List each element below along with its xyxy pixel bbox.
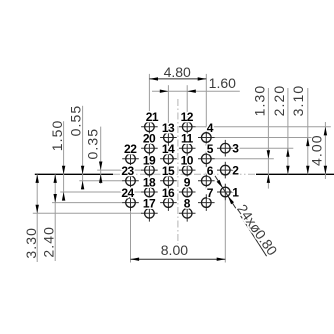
svg-text:3: 3 [232,142,239,156]
dimension 3.30 bottom arrow (tip at R8) [36,205,39,214]
wire extension line row R4 leftward to 0.35 dim [97,169,142,171]
pad 4 crosshair [198,137,215,139]
dimension 1.30 line [267,88,269,189]
pad 10 crosshair [179,169,196,171]
dimension 1.30 top arrow (tip at R3) [267,150,270,159]
dimension 0.55 line [82,106,84,190]
pad 22 crosshair [122,158,139,160]
pad 18 plated hole [145,187,155,197]
wire extension line row R2 rightward to 2.20 dim [233,147,293,149]
node vertical centerline (dash-dot) [177,99,179,244]
svg-text:2.40: 2.40 [40,226,56,258]
svg-text:18: 18 [143,175,156,189]
dimension 3.30 top arrow (tip at centerline) [36,174,39,183]
dimension 8.00 right arrow [217,258,226,261]
wire horizontal centerline solid right extension [256,173,334,175]
wire extension line row R1 rightward to 3.10 dim [214,137,311,139]
pad 13 crosshair [160,137,177,139]
svg-text:16: 16 [162,186,175,200]
pad 24 plated hole [126,198,136,208]
dimension 8.00 left arrow [131,258,140,261]
pad 11 plated hole [182,143,192,153]
pad 6 crosshair [198,180,215,182]
pad 12 crosshair [179,126,196,128]
pad 21 plated hole [145,122,155,132]
node horizontal centerline (dash-dot) [113,173,256,175]
dimension 3.10 top arrow (tip at R1) [306,138,309,147]
leader lower arrow (tip at pad 1 circle lower-right edge, pointing up-left) [228,196,234,204]
dimension 2.40 bottom arrow (tip at R7) [54,194,57,203]
pad 13 plated hole [164,133,174,143]
svg-text:8: 8 [184,197,191,211]
svg-text:21: 21 [146,110,159,124]
wire extension line row R7 leftward to 2.40 dim [52,202,123,204]
svg-text:3.10: 3.10 [290,85,306,117]
pad 8 crosshair [179,212,196,214]
pad 16 crosshair [160,202,177,204]
dimension 0.35 top arrow (tip at R4) [99,162,102,171]
dimension 4.00 top arrow (tip at R0) [324,127,327,136]
svg-text:7: 7 [207,186,214,200]
pad 19 plated hole [145,165,155,175]
pad 17 crosshair [141,212,158,214]
svg-text:2.20: 2.20 [271,85,287,117]
svg-text:4.80: 4.80 [164,64,191,80]
svg-text:19: 19 [143,154,156,168]
dimension 0.55 bottom arrow (tip at R5) [81,181,84,190]
svg-text:3.30: 3.30 [23,227,39,259]
svg-text:0.35: 0.35 [84,128,100,160]
dimension 1.50 bottom arrow (tip at R6) [62,192,65,201]
wire extension line column c5 up to 4.80 dim [205,74,207,130]
dimension 3.10 line [307,88,309,174]
pad 17 plated hole [145,209,155,219]
dimension 1.60 left arrow (outside, tip at c3) [160,90,169,93]
pad 9 crosshair [179,191,196,193]
wire extension line column c3 up to 1.60 dim [167,85,169,130]
pad 18 crosshair [141,191,158,193]
pad 8 plated hole [182,209,192,219]
svg-text:1.30: 1.30 [252,85,268,117]
wire extension line column c6 down to 8.00 dim [224,200,226,262]
dimension 3.30 line [36,174,38,262]
svg-text:1.50: 1.50 [49,120,65,152]
wire extension line row R3 rightward to 1.30 dim [214,158,273,160]
dimension 1.50 top arrow (tip at centerline) [62,166,65,175]
dimension 2.20 bottom arrow (tip at centerline) [286,166,289,175]
dimension 2.40 line [54,174,56,261]
pad 4 plated hole [202,133,212,143]
dimension 1.50 line [63,121,65,200]
dimension 2.40 top arrow (tip at centerline) [54,174,57,183]
pad 16 plated hole [164,198,174,208]
dimension 4.00 line [324,122,326,179]
svg-text:20: 20 [143,132,156,146]
svg-text:12: 12 [181,110,194,124]
dimension 4.80 line (c2 to c5) [149,78,206,80]
pad 5 crosshair [198,158,215,160]
wire extension line row R6 leftward to 1.50 dim [60,191,142,193]
pad 23 plated hole [126,176,136,186]
svg-text:5: 5 [207,142,214,156]
svg-text:4: 4 [207,121,214,135]
wire extension line column c4 up to 1.60 dim [186,85,188,119]
svg-text:17: 17 [143,197,156,211]
pad 6 plated hole [202,176,212,186]
dimension 0.55 top arrow (tip at centerline) [81,166,84,175]
svg-text:1: 1 [232,185,239,199]
svg-text:6: 6 [207,164,214,178]
dimension 8.00 line (c1 to c6) [131,258,226,260]
pad 24 crosshair [122,202,139,204]
dimension 1.60 right arrow (outside, tip at c4) [187,90,196,93]
svg-text:23: 23 [121,164,134,178]
pad 2 plated hole [221,165,231,175]
pad 15 plated hole [164,176,174,186]
wire extension line row R8 leftward to 3.30 dim [33,212,142,214]
svg-text:15: 15 [162,164,175,178]
pad 14 plated hole [164,154,174,164]
svg-text:1.60: 1.60 [209,75,236,91]
leader upper arrow (tip at pad 1 circle upper-left edge, pointing down-right) [217,180,223,188]
dimension 2.20 top arrow (tip at R2) [286,148,289,157]
wire extension line column c2 up to 4.80 dim [148,74,150,119]
svg-text:0.55: 0.55 [68,105,84,137]
pad 9 plated hole [182,187,192,197]
dimension 1.60 line (c3 to c4) [152,90,240,92]
pad 11 crosshair [179,147,196,149]
pad 10 plated hole [182,165,192,175]
dimension 0.35 line [100,127,102,184]
wire extension line column c1 down to 8.00 dim [130,211,132,263]
svg-text:10: 10 [181,154,194,168]
svg-text:9: 9 [184,175,191,189]
dimension 2.20 line [287,88,289,174]
pad 14 crosshair [160,158,177,160]
dimension 4.80 left arrow [149,77,158,80]
svg-text:8.00: 8.00 [161,242,188,258]
pad 15 crosshair [160,180,177,182]
pad 3 crosshair [217,147,234,149]
pad 5 plated hole [202,154,212,164]
pad 22 plated hole [126,154,136,164]
pad 7 crosshair [198,202,215,204]
dimension 0.35 bottom arrow (tip at centerline) [99,174,102,183]
svg-text:22: 22 [124,142,137,156]
svg-text:13: 13 [162,121,175,135]
wire extension line row R0 rightward to 4.00 dim [195,126,331,128]
dimension 1.30 bottom arrow (tip at centerline) [267,174,270,183]
pad 20 crosshair [141,147,158,149]
pad 1 crosshair [217,191,234,193]
pad 21 crosshair [141,126,158,128]
pad 23 crosshair [122,180,139,182]
dimension 4.80 right arrow [198,77,207,80]
dimension 4.00 bottom arrow (tip at centerline) [324,166,327,175]
svg-text:14: 14 [162,142,175,156]
svg-text:24xø0.80: 24xø0.80 [234,201,281,258]
pad 12 plated hole [182,122,192,132]
dimension 3.10 bottom arrow (tip at centerline) [306,166,309,175]
wire extension line row R5 leftward to 0.55 dim [79,180,123,182]
pad 1 plated hole [221,187,231,197]
pad 20 plated hole [145,143,155,153]
svg-text:24: 24 [121,186,134,200]
svg-text:2: 2 [232,163,239,177]
leader line for 24x dia 0.80 drill callout (diameter dim across pad 1) [215,176,267,256]
pad 2 crosshair [217,169,234,171]
wire horizontal centerline solid left extension [35,173,113,175]
svg-text:11: 11 [181,132,194,146]
svg-text:4.00: 4.00 [309,134,325,166]
pad 3 plated hole [221,143,231,153]
pad 7 plated hole [202,198,212,208]
pad 19 crosshair [141,169,158,171]
